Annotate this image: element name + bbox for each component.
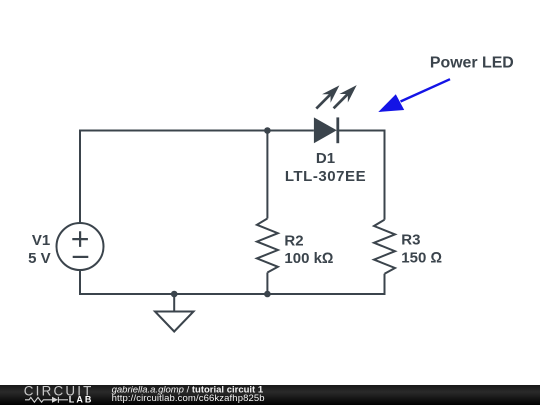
wire R2 branch bottom bbox=[266, 273, 268, 295]
svg-text:R3: R3 bbox=[401, 232, 420, 249]
wire left vertical (V1 minus to bottom corner) bbox=[79, 270, 81, 295]
footer logo schematic squiggle bbox=[25, 397, 68, 403]
svg-text:http://circuitlab.com/c66kzafh: http://circuitlab.com/c66kzafhp825b bbox=[112, 393, 265, 404]
svg-text:D1: D1 bbox=[316, 150, 335, 167]
svg-text:LAB: LAB bbox=[69, 394, 94, 404]
annotation arrow (blue) bbox=[378, 79, 450, 112]
LED D1 cathode bar bbox=[336, 117, 339, 143]
wire R3 branch top bbox=[384, 130, 386, 220]
footer bar bbox=[0, 385, 540, 405]
svg-text:Power LED: Power LED bbox=[430, 55, 514, 72]
wire R2 branch top bbox=[266, 131, 268, 219]
voltage source V1 bbox=[57, 223, 104, 270]
wire bottom horizontal bbox=[80, 293, 385, 295]
svg-text:150 Ω: 150 Ω bbox=[401, 250, 442, 267]
svg-text:100 kΩ: 100 kΩ bbox=[284, 250, 333, 267]
label D1 bbox=[285, 150, 366, 185]
LED D1 emission arrow 2 bbox=[334, 85, 357, 108]
svg-text:V1: V1 bbox=[32, 232, 50, 249]
label R2 value bbox=[284, 232, 333, 267]
LED D1 diode triangle bbox=[314, 117, 337, 143]
ground stub wire bbox=[173, 294, 175, 312]
wire left vertical (top corner to V1 plus) bbox=[79, 130, 81, 224]
node junction top (R2 tap) bbox=[264, 127, 271, 134]
wire R3 branch bottom bbox=[384, 274, 386, 295]
resistor R2 zigzag bbox=[257, 219, 278, 273]
resistor R3 zigzag bbox=[374, 220, 395, 274]
svg-text:R2: R2 bbox=[284, 232, 303, 249]
label V1 value bbox=[28, 232, 51, 267]
ground symbol bbox=[155, 312, 194, 332]
svg-text:LTL-307EE: LTL-307EE bbox=[285, 168, 366, 185]
node junction bottom R2 bbox=[264, 291, 271, 298]
wire top horizontal (V1 to D1 anode) bbox=[80, 130, 314, 132]
label R3 value bbox=[401, 232, 442, 267]
LED D1 emission arrow 1 bbox=[316, 85, 339, 108]
svg-text:5 V: 5 V bbox=[28, 250, 51, 267]
wire D1 cathode to right corner bbox=[338, 130, 385, 132]
node junction bottom ground tap bbox=[171, 291, 178, 298]
